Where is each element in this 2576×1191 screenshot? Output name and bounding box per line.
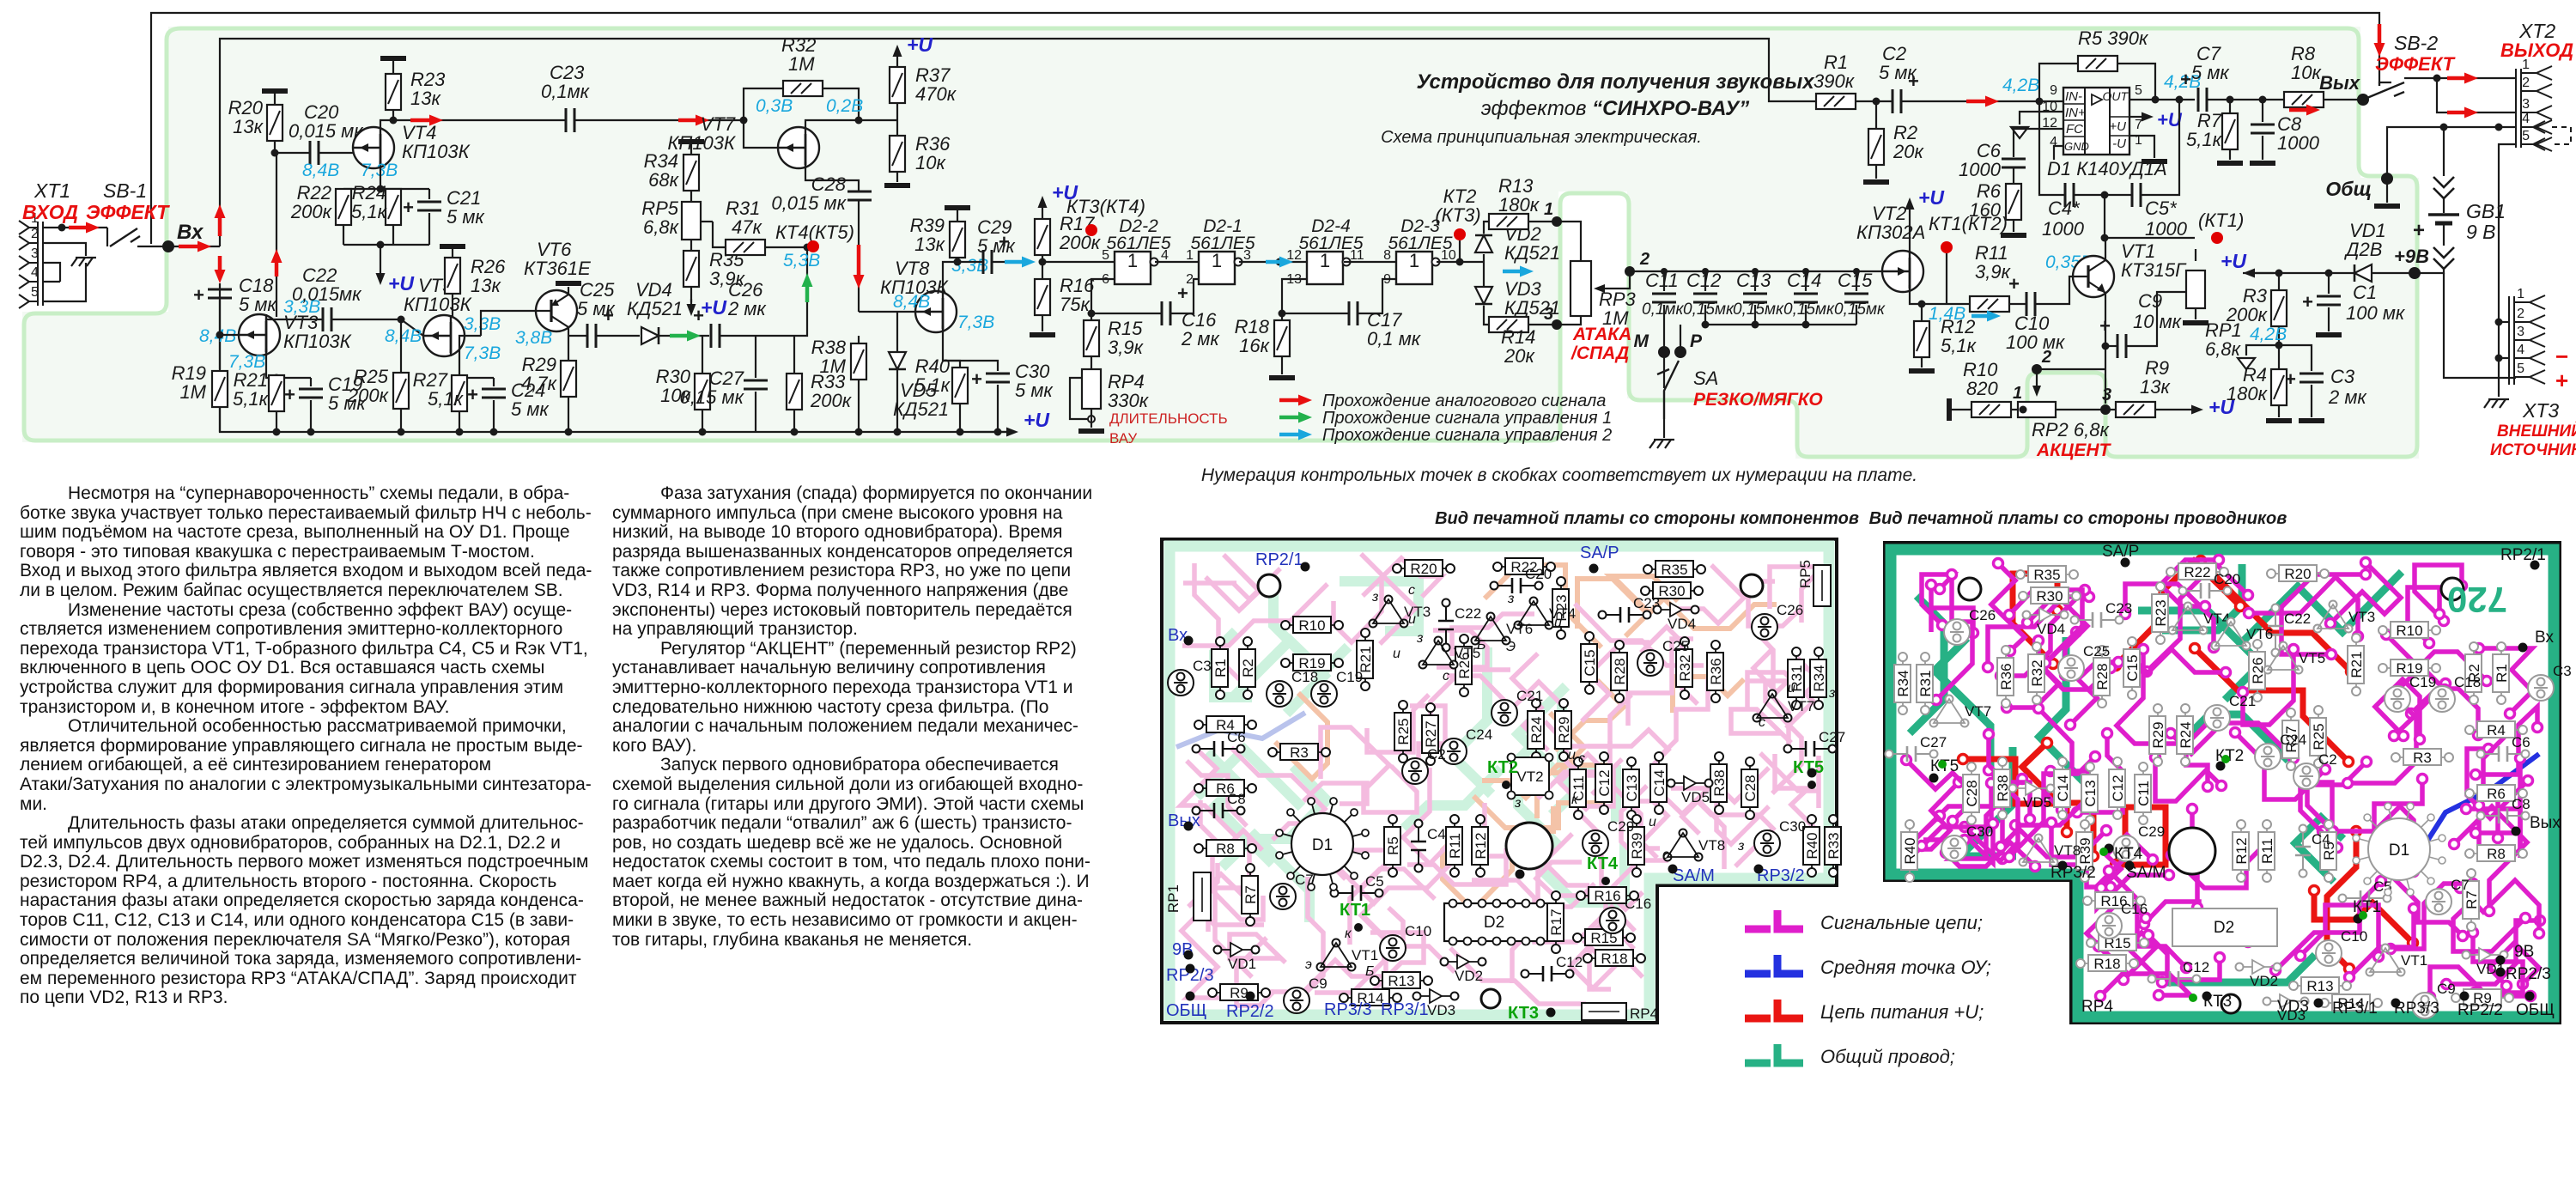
svg-text:R20: R20 [1410, 561, 1437, 577]
svg-text:R10: R10 [1298, 617, 1325, 634]
svg-text:OUT: OUT [2102, 89, 2129, 103]
svg-text:2 мк: 2 мк [1181, 328, 1220, 349]
svg-text:VT3: VT3 [2348, 609, 2375, 625]
svg-text:+U: +U [907, 33, 933, 56]
left PCB component R32 [1676, 637, 1693, 699]
svg-text:R27: R27 [1423, 720, 1439, 747]
svg-text:Э: Э [1506, 640, 1516, 654]
svg-text:VD4: VD4 [2037, 621, 2065, 637]
svg-text:Вх: Вх [177, 221, 204, 244]
svg-text:КТ361Е: КТ361Е [524, 258, 591, 279]
svg-text:C5*: C5* [2145, 197, 2178, 219]
wire VT4 drain to C23 [380, 120, 566, 128]
svg-text:R13: R13 [1388, 973, 1414, 989]
resistor R19 [212, 371, 228, 407]
svg-text:ОБЩ: ОБЩ [2516, 1001, 2555, 1019]
left PCB component C15 [1581, 632, 1598, 694]
node M [1658, 346, 1670, 358]
left PCB component C21 [1492, 688, 1543, 726]
left PCB component C9 [1284, 975, 1327, 1013]
svg-text:C27: C27 [1819, 729, 1845, 745]
svg-text:390к: 390к [1814, 70, 1856, 92]
svg-text:RP2/2: RP2/2 [2458, 1001, 2503, 1019]
svg-text:ИСТОЧНИК: ИСТОЧНИК [2490, 441, 2576, 459]
svg-text:C12: C12 [1686, 270, 1721, 291]
svg-text:3,3В: 3,3В [464, 314, 501, 334]
svg-text:з: з [1507, 592, 1514, 606]
svg-text:9В: 9В [2514, 943, 2534, 961]
left PCB component C26 [1752, 602, 1803, 640]
left PCB component C11 [1570, 757, 1587, 819]
wire VT5 source up [452, 294, 453, 318]
svg-text:1000: 1000 [2277, 132, 2320, 154]
svg-text:RP5: RP5 [1797, 560, 1814, 588]
svg-text:RP3/1: RP3/1 [1381, 1000, 1429, 1019]
resistor R18 [1281, 313, 1283, 320]
wire -U pin D1 [2129, 136, 2154, 158]
right PCB pads [2121, 558, 2130, 568]
right PCB D2 ghost [2172, 908, 2277, 946]
left PCB component VT8 [1664, 829, 1726, 861]
left PCB component C29 [1583, 818, 1634, 856]
svg-text:VT1: VT1 [1352, 947, 1378, 963]
svg-text:с: с [1759, 715, 1765, 730]
wire VT7 drain down C28 [805, 166, 859, 191]
svg-text:R24: R24 [1528, 716, 1545, 743]
red arrow input [69, 222, 100, 234]
wire VT2 source [1910, 289, 1970, 304]
svg-text:5: 5 [1102, 248, 1109, 263]
svg-text:C14: C14 [1651, 769, 1668, 796]
svg-text:RP3/2: RP3/2 [1757, 866, 1805, 885]
svg-text:R36: R36 [1998, 663, 2014, 690]
red arrow to Вх [179, 241, 211, 252]
wire C11 to M [1663, 325, 1665, 347]
node XT1 pin1 junction [58, 224, 66, 232]
svg-text:+: + [2413, 219, 2425, 242]
svg-text:+U: +U [701, 296, 727, 319]
svg-text:+U: +U [2109, 119, 2126, 134]
svg-text:2: 2 [1186, 272, 1194, 287]
left PCB component R34 [1810, 647, 1827, 709]
svg-text:C21: C21 [1516, 688, 1543, 704]
svg-text:ВНЕШНИЙ: ВНЕШНИЙ [2497, 422, 2576, 441]
resistor R29 [568, 327, 569, 361]
svg-text:330к: 330к [1108, 390, 1150, 411]
ground bar C1 [2316, 332, 2342, 337]
left PCB trimmer RP5 [1797, 560, 1831, 606]
capacitor C5* [2132, 183, 2141, 207]
capacitor C7 [2180, 69, 2207, 112]
svg-text:R30: R30 [1658, 583, 1685, 599]
svg-text:C4: C4 [2312, 831, 2330, 848]
svg-text:КД521: КД521 [893, 398, 949, 420]
red arrows at input node [215, 204, 226, 236]
svg-text:5: 5 [2522, 129, 2530, 143]
svg-text:+: + [2099, 315, 2111, 337]
svg-text:10к: 10к [915, 152, 946, 173]
svg-text:GND: GND [2064, 140, 2089, 153]
left PCB component C6 [1193, 729, 1246, 757]
svg-text:C22: C22 [1455, 605, 1481, 622]
svg-text:R5: R5 [1385, 836, 1401, 855]
gate D2-3 [1396, 250, 1440, 284]
left PCB component R18 [1583, 950, 1645, 967]
svg-text:Вх: Вх [2535, 629, 2554, 647]
svg-text:с: с [1408, 583, 1415, 598]
svg-text:11: 11 [1350, 248, 1364, 263]
resistor R37 [890, 67, 905, 103]
svg-text:3: 3 [2517, 325, 2524, 339]
svg-text:0,015 мк: 0,015 мк [289, 120, 364, 142]
svg-text:ХТ1: ХТ1 [33, 179, 70, 202]
wire D2-3 out [1437, 261, 1484, 263]
ground bar Общ [2374, 204, 2400, 209]
svg-text:VT4: VT4 [1549, 605, 1576, 622]
svg-text:1М: 1М [788, 53, 815, 75]
cyan arrow mid gates [1266, 257, 1293, 268]
left PCB component C23 [1599, 595, 1661, 623]
wire XT3 pin4 [2499, 322, 2509, 358]
svg-text:7: 7 [2135, 118, 2142, 132]
wire VT8 source [943, 262, 983, 294]
svg-text:3: 3 [2522, 97, 2530, 112]
ground chassis XT1 [71, 258, 96, 266]
svg-text:RP3/2: RP3/2 [2050, 864, 2096, 882]
resistor R26 [440, 244, 465, 249]
svg-text:/СПАД: /СПАД [1571, 343, 1629, 363]
left PCB component R3 [1268, 744, 1330, 761]
right PCB green testpoint pads [2359, 911, 2367, 920]
wire C18 to VT3 gate and R19 [219, 300, 221, 369]
svg-text:0,015 мк: 0,015 мк [771, 192, 847, 214]
svg-text:RP4: RP4 [2081, 998, 2113, 1016]
chassis ground XT3 [2498, 358, 2500, 397]
connector XT1 [19, 211, 43, 308]
resistor R30 [702, 335, 703, 337]
svg-text:ДЛИТЕЛЬНОСТЬ: ДЛИТЕЛЬНОСТЬ [1109, 410, 1228, 427]
switch SB-1 [106, 228, 108, 246]
svg-text:R39: R39 [1629, 832, 1645, 859]
legend arrow analog signal [1279, 395, 1312, 406]
left PCB component R29 [1555, 699, 1572, 761]
wire bottom +U bus [220, 301, 1013, 432]
svg-text:0,15мк: 0,15мк [1733, 301, 1784, 319]
svg-text:КТ4: КТ4 [1587, 854, 1619, 873]
svg-text:Нумерация контрольных точек в: Нумерация контрольных точек в скобках со… [1201, 465, 1917, 485]
diode VD4 [641, 327, 659, 344]
wire VT1 collector node [2101, 234, 2109, 242]
left PCB lavender trace [1176, 713, 1305, 747]
capacitor C4* [2039, 101, 2065, 195]
wire D2-4 out to D2-3 [1344, 261, 1396, 263]
svg-text:820: 820 [1966, 378, 1998, 399]
left PCB component C16 [1600, 896, 1651, 933]
left PCB component C13 [1623, 757, 1640, 819]
left PCB mint traces [1340, 581, 1419, 631]
battery jack contacts GB1 top [2443, 127, 2445, 176]
svg-text:5: 5 [2135, 83, 2142, 98]
capacitor C22 [323, 307, 331, 331]
svg-text:R1: R1 [2494, 664, 2510, 683]
svg-text:D2: D2 [2214, 919, 2234, 937]
wire VT4 source down [380, 167, 381, 189]
bar VT6 collector [556, 281, 581, 286]
resistor R27 [459, 377, 460, 379]
left PCB component R33 [1825, 815, 1842, 877]
svg-text:C20: C20 [2214, 571, 2240, 587]
svg-text:13к: 13к [471, 275, 501, 296]
left PCB component C5 [1331, 873, 1384, 901]
svg-text:и: и [1788, 681, 1795, 696]
left PCB component C10 [1380, 923, 1431, 961]
resistor R40 [952, 368, 968, 404]
left PCB IC D2 [1444, 900, 1549, 945]
wire to D2-2 [1042, 261, 1115, 263]
svg-text:R31: R31 [1917, 670, 1934, 696]
svg-text:Схема принципиальная электриче: Схема принципиальная электрическая. [1381, 128, 1702, 147]
right PCB D1 ghost [2353, 803, 2445, 896]
svg-text:VT8: VT8 [1698, 837, 1725, 854]
svg-text:16к: 16к [1239, 335, 1270, 356]
resistor R20 [262, 88, 288, 94]
battery GB1 [2428, 213, 2459, 216]
svg-text:4,2В: 4,2В [2002, 76, 2039, 95]
svg-text:VD2: VD2 [1455, 968, 1483, 984]
svg-text:R36: R36 [1708, 658, 1724, 684]
svg-text:C19: C19 [2409, 674, 2436, 690]
svg-text:C7: C7 [2451, 877, 2470, 893]
svg-text:КП302А: КП302А [1856, 222, 1925, 243]
svg-text:C2: C2 [2318, 751, 2337, 768]
green arrow up to KT4 [802, 273, 813, 302]
svg-text:+: + [403, 197, 414, 218]
svg-text:Вид печатной платы со стороны: Вид печатной платы со стороны проводнико… [1869, 509, 2287, 528]
svg-text:RP2/3: RP2/3 [2506, 965, 2551, 983]
left PCB component R4 [1194, 716, 1256, 733]
svg-text:0,1 мк: 0,1 мк [1367, 328, 1422, 349]
svg-text:R6: R6 [2487, 786, 2506, 802]
svg-text:з: з [1737, 839, 1744, 854]
gate D2-1 [1199, 250, 1242, 284]
right PCB magenta signal traces [2186, 714, 2217, 787]
node 1 RP2 [2020, 406, 2027, 414]
svg-text:1: 1 [2517, 287, 2524, 301]
svg-text:с: с [1578, 751, 1585, 766]
left PCB component C27 [1784, 729, 1846, 757]
capacitor C28 [848, 191, 872, 200]
svg-text:R18: R18 [2093, 956, 2120, 972]
svg-text:FC: FC [2066, 122, 2083, 137]
svg-text:R25: R25 [1395, 718, 1412, 744]
svg-text:Б: Б [1365, 964, 1374, 979]
svg-text:+: + [284, 384, 295, 405]
svg-text:D2: D2 [1484, 914, 1504, 932]
left PCB hole top-right [1741, 574, 1763, 597]
svg-text:GB1: GB1 [2466, 200, 2506, 222]
left PCB component C24 [1441, 726, 1492, 764]
left PCB component R35 [1643, 561, 1705, 578]
resistor R25 [398, 316, 405, 324]
svg-text:R11: R11 [2259, 838, 2275, 864]
svg-text:C2: C2 [1427, 746, 1446, 763]
svg-text:C12: C12 [2110, 775, 2126, 801]
resistor R36 [896, 120, 898, 136]
left PCB mint ground band [1170, 546, 1829, 1015]
svg-text:9: 9 [1383, 272, 1391, 287]
svg-text:R35: R35 [1661, 562, 1687, 578]
svg-text:5,1к: 5,1к [2186, 129, 2223, 150]
resistor R15 [1091, 313, 1092, 320]
op-amp D1 К140УД1А [2063, 88, 2129, 155]
wire IN+ ground [2020, 112, 2063, 125]
gate D2-4 [1307, 250, 1351, 284]
svg-text:АТАКА: АТАКА [1572, 325, 1631, 344]
wire inner feed loop [220, 39, 1816, 246]
ground bar RP1 [2183, 320, 2208, 325]
capacitor C19 [310, 378, 312, 386]
trimmer RP5 [690, 191, 692, 202]
left PCB component R19 [1281, 654, 1343, 671]
svg-text:R35: R35 [2033, 567, 2060, 583]
left PCB component VT7 [1753, 690, 1815, 722]
transistor VT3 [220, 334, 239, 336]
svg-text:эффектов “СИНХРО-ВАУ”: эффектов “СИНХРО-ВАУ” [1481, 97, 1749, 120]
left PCB component R6 [1194, 780, 1256, 797]
svg-text:RP3/1: RP3/1 [2332, 1000, 2378, 1018]
svg-text:C14: C14 [1787, 270, 1821, 291]
red arrow after R8 [2289, 105, 2320, 116]
svg-text:R2: R2 [1240, 659, 1256, 678]
transistor VT7 [778, 127, 819, 168]
svg-text:5,3В: 5,3В [783, 251, 820, 270]
svg-text:(КТ3): (КТ3) [1435, 204, 1480, 226]
resistor R7 [2227, 96, 2234, 104]
resistor R35 [690, 240, 692, 251]
resistor R12 [1918, 301, 1926, 308]
svg-text:2: 2 [2522, 76, 2530, 90]
svg-text:RP2 6,8к: RP2 6,8к [2032, 419, 2110, 441]
svg-text:R29: R29 [1556, 716, 1572, 743]
node 2 RP2 [2105, 368, 2106, 370]
node KT2(KT3) [1459, 240, 1461, 262]
svg-text:3,8В: 3,8В [515, 328, 552, 348]
svg-text:R4: R4 [2487, 722, 2506, 738]
red arrow before VT7 [678, 115, 709, 126]
svg-text:C12: C12 [1556, 954, 1583, 970]
svg-text:R21: R21 [2348, 651, 2365, 678]
svg-text:C18: C18 [1291, 669, 1318, 685]
left PCB component C22 [1438, 599, 1481, 652]
svg-text:C27: C27 [1920, 734, 1947, 750]
wire D2-1 out [1239, 261, 1307, 263]
svg-text:RP4: RP4 [1630, 1006, 1658, 1022]
svg-text:R32: R32 [2029, 659, 2045, 686]
svg-text:Устройство для получения звуко: Устройство для получения звуковых [1416, 70, 1815, 94]
svg-text:C10: C10 [1405, 923, 1431, 939]
svg-text:R12: R12 [2233, 837, 2250, 864]
capacitor C3 [2279, 345, 2312, 371]
left PCB component R25 [1394, 701, 1412, 763]
svg-text:1000: 1000 [2145, 218, 2188, 240]
left PCB component C4 [1411, 820, 1446, 872]
svg-text:R28: R28 [1612, 658, 1628, 684]
svg-text:Средняя точка ОУ;: Средняя точка ОУ; [1820, 957, 1991, 978]
right PCB ghost components [2267, 565, 2329, 582]
node VT7 gate [740, 117, 748, 125]
left PCB component C2 [1402, 746, 1446, 784]
svg-text:720: 720 [2447, 580, 2507, 620]
svg-text:+: + [467, 384, 478, 405]
svg-text:C25: C25 [2083, 643, 2110, 659]
open ground 4,2В [2246, 345, 2279, 355]
svg-text:R29: R29 [2150, 721, 2166, 748]
svg-text:200к: 200к [290, 201, 333, 222]
ground bar R2 [1863, 179, 1889, 185]
svg-text:КТ4: КТ4 [2114, 845, 2143, 863]
svg-text:5: 5 [2517, 362, 2524, 376]
svg-text:180к: 180к [1498, 194, 1540, 216]
ground bar R6 [2001, 233, 2026, 238]
green arrow after VD4 [670, 331, 701, 342]
svg-text:1: 1 [1544, 200, 1553, 219]
capacitor C1 [2325, 270, 2333, 277]
svg-text:C14: C14 [2055, 775, 2071, 801]
svg-text:5 мк: 5 мк [577, 298, 616, 319]
svg-text:10к: 10к [2291, 62, 2322, 83]
svg-text:1000: 1000 [2042, 218, 2085, 240]
svg-text:1: 1 [2013, 384, 2022, 403]
left PCB component R26 [1455, 635, 1473, 696]
left PCB component R15 [1573, 929, 1635, 946]
left PCB component R1 [1212, 637, 1229, 699]
svg-text:R8: R8 [1216, 841, 1235, 857]
svg-text:RP3/3: RP3/3 [2394, 1000, 2439, 1018]
left PCB board outline [1162, 539, 1837, 1023]
+U arrow R9 [2172, 405, 2203, 415]
left PCB component VD1 [1214, 943, 1260, 972]
capacitor C8 [2259, 96, 2267, 104]
svg-text:200к: 200к [1059, 232, 1102, 253]
resistor R16 [1039, 258, 1047, 266]
left PCB component R7 [1242, 864, 1259, 926]
left PCB component VD3 [1413, 989, 1459, 1018]
capacitor C27 [755, 336, 756, 378]
left PCB component C14 [1650, 752, 1668, 814]
svg-text:C30: C30 [1779, 818, 1806, 835]
svg-text:R17: R17 [1548, 908, 1564, 935]
svg-text:R5 390к: R5 390к [2078, 27, 2149, 49]
svg-text:0,15мк: 0,15мк [1683, 301, 1735, 319]
svg-text:13к: 13к [2140, 376, 2171, 398]
svg-text:з: з [1514, 796, 1521, 811]
svg-text:R34: R34 [1895, 670, 1911, 696]
svg-text:3: 3 [2102, 386, 2111, 404]
svg-text:4,2В: 4,2В [2250, 325, 2287, 344]
transistor VT6 [481, 311, 536, 336]
transistor VT4 [353, 127, 394, 168]
capacitor C23 [566, 108, 574, 132]
schematic background tint inside frame [22, 27, 2419, 459]
svg-text:C12: C12 [1596, 769, 1613, 796]
node 4,2В divider [2275, 342, 2283, 349]
capacitor C24 [493, 378, 495, 386]
svg-text:C25: C25 [1662, 638, 1689, 654]
wire VT7 source top [805, 120, 897, 130]
svg-text:VD3: VD3 [2277, 998, 2309, 1016]
svg-text:Вых: Вых [2319, 72, 2360, 94]
ground bar R36 [884, 183, 910, 188]
